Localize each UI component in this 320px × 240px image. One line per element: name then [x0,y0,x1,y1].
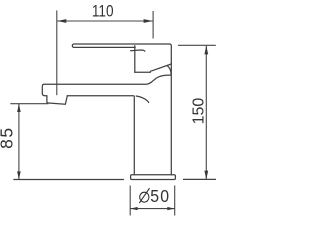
svg-text:50: 50 [150,186,170,206]
svg-text:150: 150 [190,98,207,125]
svg-text:85: 85 [0,126,17,149]
svg-text:110: 110 [92,2,114,20]
